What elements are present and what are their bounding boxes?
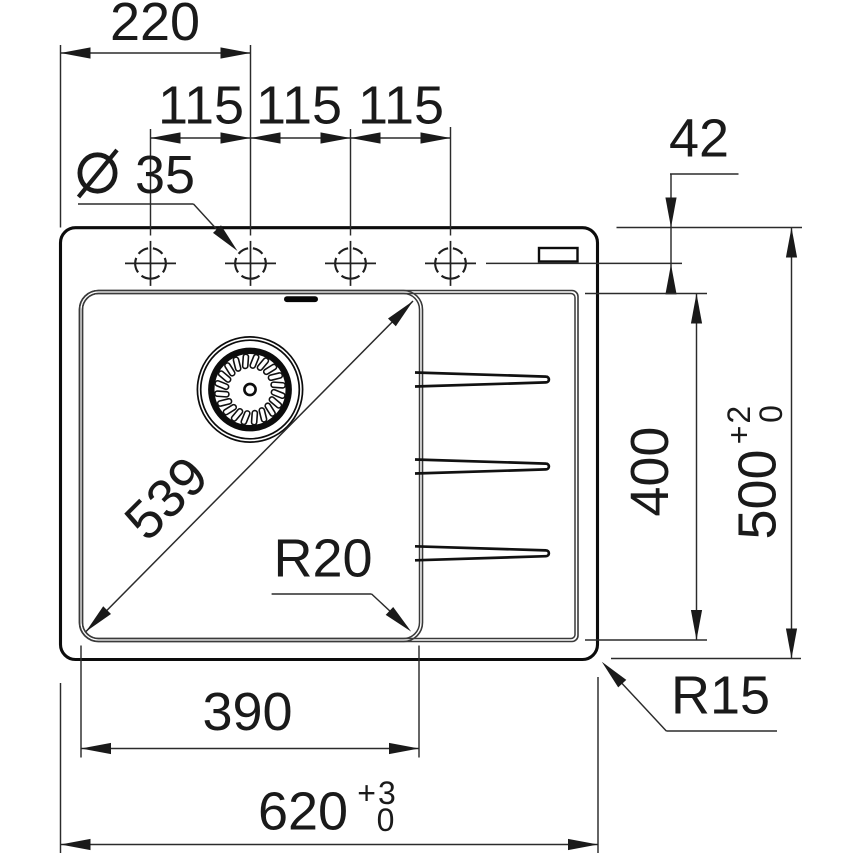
drainboard groove 2 bbox=[415, 460, 549, 474]
basin area outer line bbox=[80, 291, 579, 642]
hole diameter leader bbox=[78, 204, 238, 251]
svg-text:220: 220 bbox=[110, 0, 200, 52]
label 220 bbox=[110, 0, 200, 52]
svg-text:620: 620 bbox=[258, 782, 348, 842]
label 115 c bbox=[358, 76, 444, 136]
label 620 +3/0 bbox=[258, 775, 398, 842]
svg-text:400: 400 bbox=[620, 427, 680, 517]
label 500 +2/0 bbox=[721, 404, 789, 540]
label Ø 35 (diameter symbol + 35) bbox=[79, 145, 196, 205]
dimension 115 lines bbox=[151, 127, 451, 236]
svg-text:115: 115 bbox=[158, 76, 244, 136]
svg-text:539: 539 bbox=[113, 445, 219, 551]
bowl outer line bbox=[80, 291, 423, 642]
svg-text:500: 500 bbox=[728, 449, 788, 539]
svg-text:R20: R20 bbox=[273, 529, 372, 589]
svg-text:35: 35 bbox=[135, 145, 195, 205]
label 390 bbox=[202, 682, 292, 742]
svg-text:+2: +2 bbox=[721, 404, 757, 444]
dimension 620 lines bbox=[61, 677, 599, 853]
faucet hole 3 (dashed circle + crosshair) bbox=[325, 241, 376, 286]
svg-text:115: 115 bbox=[358, 76, 444, 136]
tap ledge rectangle bbox=[539, 248, 578, 262]
faucet hole 1 (dashed circle + crosshair) bbox=[125, 241, 176, 286]
faucet hole 4 (dashed circle + crosshair) bbox=[425, 241, 476, 286]
label R20 bbox=[273, 529, 372, 589]
svg-text:390: 390 bbox=[202, 682, 292, 742]
bowl inner line bbox=[83, 294, 420, 639]
sink outer edge bbox=[61, 228, 598, 660]
faucet hole 2 (dashed circle + crosshair) bbox=[225, 241, 276, 286]
sink radius R15 leader bbox=[602, 662, 777, 731]
diagonal dimension 539 bbox=[86, 301, 413, 632]
label 539 bbox=[113, 445, 219, 551]
drainboard groove 3 bbox=[415, 546, 549, 560]
svg-text:115: 115 bbox=[256, 76, 342, 136]
svg-text:0: 0 bbox=[377, 802, 395, 838]
svg-text:0: 0 bbox=[753, 405, 789, 423]
label 42 bbox=[669, 109, 729, 169]
label 115 b bbox=[256, 76, 342, 136]
drain strainer bbox=[197, 337, 302, 442]
dimension 42 lines bbox=[486, 174, 802, 294]
bowl radius R20 leader bbox=[272, 594, 412, 632]
overflow slot bbox=[284, 296, 318, 302]
dimension 500 lines bbox=[611, 228, 801, 659]
basin area inner line bbox=[83, 294, 576, 639]
dimension 390 lines bbox=[81, 646, 419, 758]
dimension 400 lines bbox=[585, 294, 707, 641]
label R15 bbox=[671, 666, 770, 726]
dimension 220 lines bbox=[61, 45, 251, 236]
svg-text:R15: R15 bbox=[671, 666, 770, 726]
drainboard groove 1 bbox=[415, 373, 549, 387]
svg-text:42: 42 bbox=[669, 109, 729, 169]
label 400 bbox=[620, 427, 680, 517]
label 115 a bbox=[158, 76, 244, 136]
